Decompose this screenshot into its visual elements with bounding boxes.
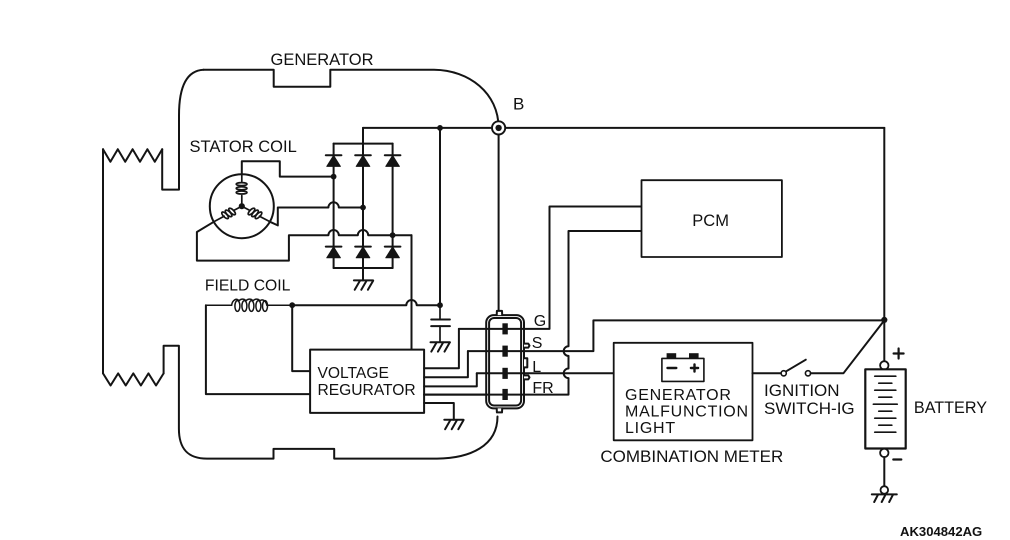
svg-text:MALFUNCTION: MALFUNCTION <box>625 403 749 420</box>
connector pin FR <box>502 389 507 400</box>
PCM box U2 <box>642 180 782 257</box>
ground rectifier <box>354 280 373 289</box>
rectifier column 3 wire <box>392 144 394 268</box>
connector pin S <box>502 346 507 357</box>
node battery positive junction <box>881 317 887 323</box>
svg-text:VOLTAGE: VOLTAGE <box>318 365 389 382</box>
battery BT1 <box>865 323 905 486</box>
node field coil junction <box>289 302 295 308</box>
wire G row through connector to PCM <box>459 207 642 329</box>
wire col2 riser to B rail <box>362 128 364 144</box>
diode D3 top col3 <box>385 155 401 166</box>
stator coil circle <box>210 174 274 238</box>
generator housing left slip-ring zigzag upper <box>103 149 162 162</box>
svg-text:FR: FR <box>532 380 553 397</box>
rectifier top rail <box>334 143 393 145</box>
wire FR row through connector and riser to PCM (hops over S and L wires) <box>424 231 641 395</box>
wire phase3 sense drop to regulator <box>411 235 413 349</box>
wire warning light to ignition switch <box>753 372 782 374</box>
field coil inductor L1 <box>206 299 292 311</box>
diode D1 top col1 <box>326 155 342 166</box>
wire ignition switch to battery junction <box>811 320 885 373</box>
connector body (4-pin) <box>486 311 529 413</box>
svg-text:GENERATOR: GENERATOR <box>271 51 374 69</box>
svg-text:S: S <box>532 335 543 352</box>
rectifier column 2 wire <box>362 144 364 281</box>
wire regulator L output <box>424 373 477 386</box>
ground regulator <box>444 420 463 429</box>
stator winding top coil <box>236 174 247 203</box>
svg-text:IGNITION: IGNITION <box>764 381 840 400</box>
wire L row through connector to warning light <box>477 372 614 374</box>
node phase1-col1 junction <box>331 174 337 180</box>
node phase2-col2 junction <box>360 205 366 211</box>
battery charge warning lamp icon <box>662 353 704 381</box>
connector pin L <box>502 368 507 379</box>
stator phase1 wire (top branch to diode column 1) <box>242 161 334 176</box>
combination meter warning light box <box>614 343 753 441</box>
svg-text:AK304842AG: AK304842AG <box>900 524 982 539</box>
stator phase3 wire (left branch to diode column 3, hops over col1 col2) <box>197 222 412 261</box>
svg-text:B: B <box>513 95 524 114</box>
generator housing left slip-ring zigzag lower <box>103 373 164 385</box>
ground capacitor <box>431 342 450 351</box>
wire regulator ground lead <box>424 403 454 420</box>
svg-text:STATOR COIL: STATOR COIL <box>190 138 297 156</box>
wire field node down to regulator <box>292 305 310 371</box>
svg-text:G: G <box>534 313 546 330</box>
svg-text:FIELD COIL: FIELD COIL <box>205 278 291 295</box>
svg-text:REGURATOR: REGURATOR <box>318 382 416 399</box>
connector pin G <box>502 323 507 334</box>
capacitor C1 <box>431 305 450 342</box>
stator phase2 wire (right branch to diode column 2, hop over col1) <box>270 202 363 225</box>
ground battery chassis <box>872 486 897 502</box>
stator winding left coil <box>214 206 242 222</box>
svg-text:L: L <box>532 359 541 376</box>
wire regulator G output <box>424 329 459 368</box>
wire field coil left loop down to regulator <box>206 305 310 394</box>
rectifier bottom rail <box>334 267 393 269</box>
ignition switch SW1 <box>781 360 811 376</box>
generator housing outline top <box>162 70 498 190</box>
diode D6 bottom col3 <box>385 247 401 258</box>
wire B rail down right side to battery junction <box>883 128 885 320</box>
node capacitor junction <box>437 302 443 308</box>
wire B rail to capacitor <box>439 128 441 305</box>
svg-text:GENERATOR: GENERATOR <box>625 387 732 404</box>
svg-text:SWITCH-IG: SWITCH-IG <box>764 399 855 418</box>
wire regulator FR output <box>424 394 486 396</box>
svg-text:PCM: PCM <box>692 212 729 230</box>
wire B terminal drop to connector nub <box>498 134 500 311</box>
diode D4 bottom col1 <box>326 247 342 258</box>
wire B output rail <box>363 127 884 129</box>
node B rail capacitor tap <box>437 125 443 131</box>
generator housing outline bottom <box>164 346 498 459</box>
diode D2 top col2 <box>355 155 371 166</box>
generator housing left edge wire <box>102 149 104 373</box>
wire S row through connector to battery junction <box>468 320 884 351</box>
stator winding right coil <box>242 206 270 222</box>
node stator neutral point <box>239 203 245 209</box>
wire regulator S output <box>424 351 468 377</box>
node phase3-col3 junction <box>390 232 396 238</box>
wire field coil to capacitor node (hop over regulator riser) <box>292 300 440 305</box>
svg-text:BATTERY: BATTERY <box>914 399 987 417</box>
voltage regulator box U1 <box>310 350 424 413</box>
svg-text:COMBINATION METER: COMBINATION METER <box>600 447 783 466</box>
svg-text:LIGHT: LIGHT <box>625 420 676 437</box>
diode D5 bottom col2 <box>355 247 371 258</box>
rectifier column 1 wire <box>333 144 335 268</box>
node B terminal <box>492 121 505 134</box>
